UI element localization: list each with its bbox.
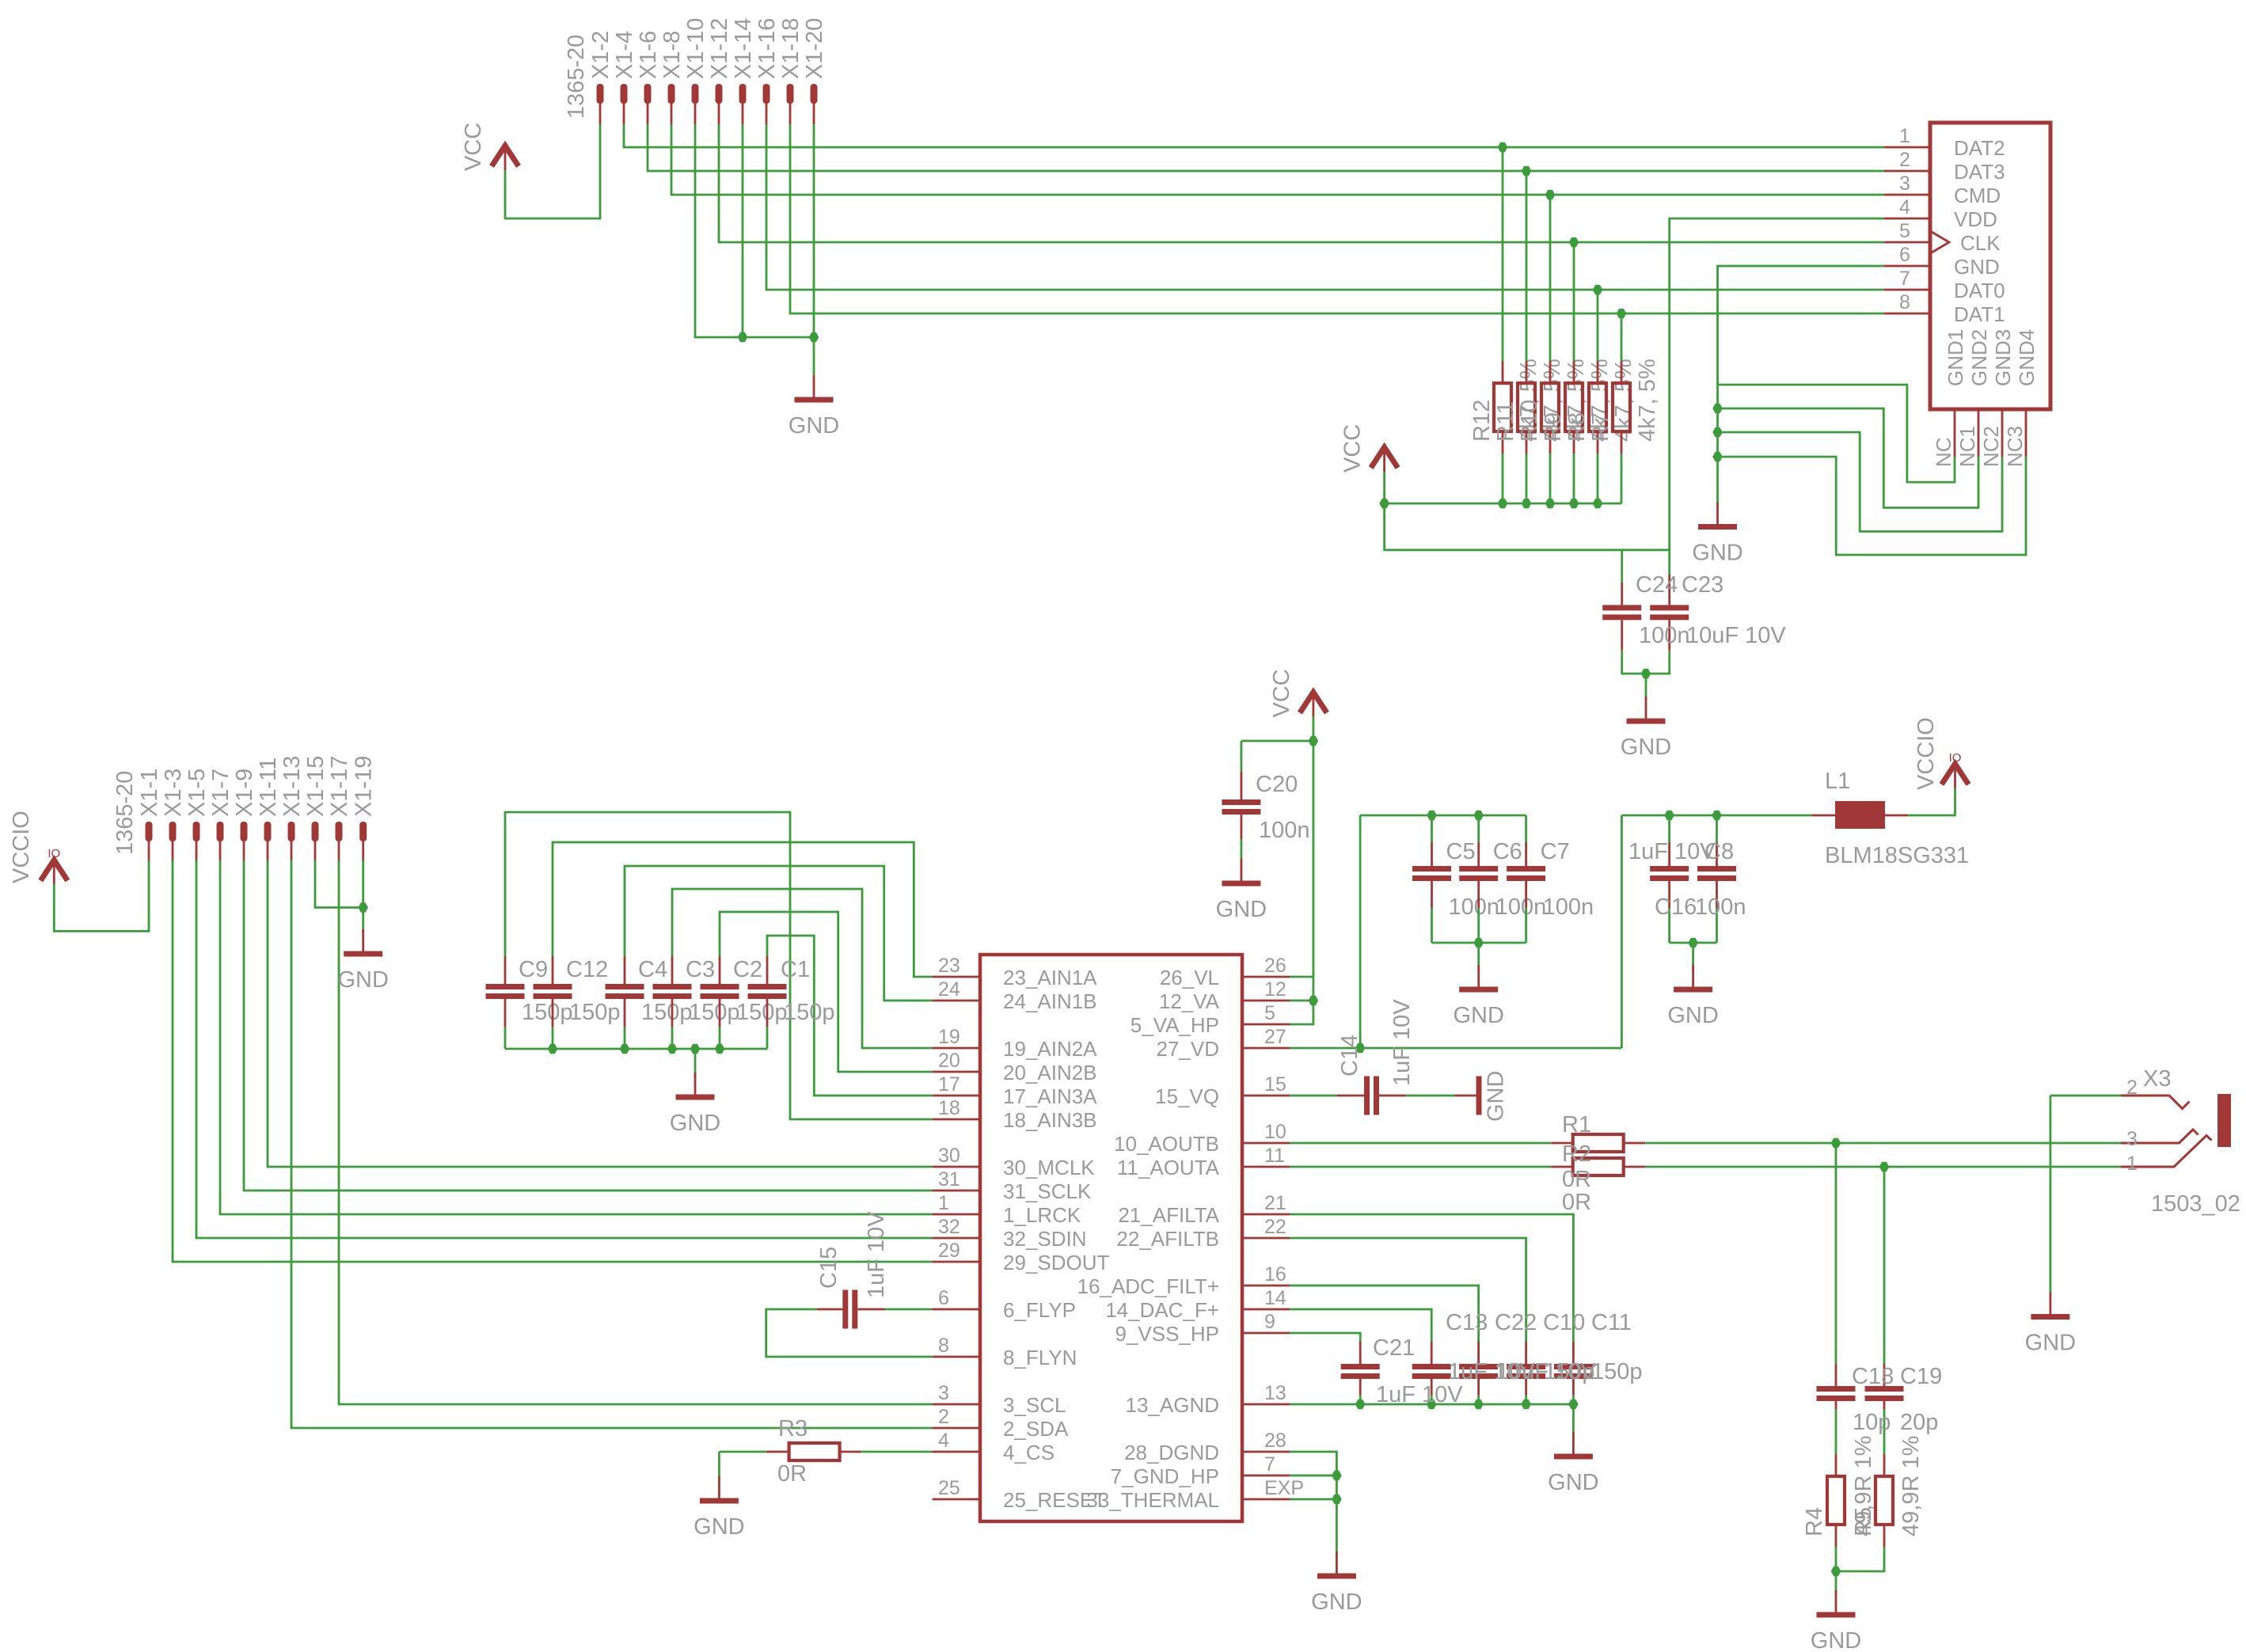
ground (AGND) (1572, 1432, 1575, 1454)
junction R12 on bus row (1498, 142, 1508, 153)
wire NC1 to GND rail (1718, 408, 1979, 507)
junction C19 branch (1879, 1162, 1890, 1172)
svg-text:DAT0: DAT0 (1954, 279, 2005, 302)
IC pin 13 stub (right) (1242, 1403, 1290, 1406)
svg-text:C3: C3 (686, 957, 715, 982)
connector pin X1-3 (169, 822, 177, 841)
wire C3 bottom (671, 1027, 674, 1049)
pin 4 VDD stub (1884, 218, 1930, 220)
svg-text:1: 1 (2126, 1153, 2138, 1175)
wire C4 bottom (624, 1027, 626, 1049)
svg-text:GND: GND (1484, 1071, 1509, 1122)
wire R10 top to bus row (1549, 195, 1552, 361)
svg-text:VDD: VDD (1954, 207, 1997, 231)
svg-text:GND: GND (1311, 1589, 1362, 1615)
svg-text:0R: 0R (777, 1461, 807, 1487)
svg-text:100n: 100n (1543, 894, 1594, 920)
wire to C20 top (1241, 740, 1313, 742)
svg-text:C24: C24 (1636, 572, 1678, 598)
svg-text:5: 5 (1264, 1002, 1275, 1024)
wire X1-11 to MCLK pin30 (268, 860, 933, 1168)
connector X3 pin 1 contact (2121, 1136, 2212, 1168)
svg-text:21: 21 (1264, 1192, 1286, 1214)
svg-text:150p: 150p (522, 1000, 573, 1025)
IC pin 22 stub (right) (1242, 1237, 1290, 1240)
svg-text:GND: GND (694, 1514, 744, 1540)
svg-text:R1: R1 (1562, 1112, 1591, 1137)
pin GND1 stub (1954, 409, 1956, 457)
pin GND3 stub (2001, 409, 2004, 457)
svg-text:2: 2 (1899, 149, 1910, 171)
capacitor C16 (1697, 866, 1736, 872)
pin lead C20 bottom (1241, 815, 1243, 839)
svg-text:X1-12: X1-12 (707, 18, 732, 79)
wire AGND pin13 rail (1290, 1403, 1573, 1406)
junction EXP (1332, 1494, 1342, 1505)
wire pin26 VL (1290, 976, 1313, 978)
svg-text:150p: 150p (1544, 1359, 1595, 1384)
svg-text:26_VL: 26_VL (1160, 966, 1219, 989)
wire DAC_F+ pin14 to C13 (1290, 1309, 1431, 1342)
connector X3 pin 3 contact (2121, 1130, 2198, 1143)
pin lead C4 top (624, 956, 626, 984)
wire VCCIO to X1-1 (54, 860, 149, 932)
junction VCC rail at R8 (1593, 499, 1603, 509)
svg-text:X1-5: X1-5 (184, 769, 210, 817)
svg-text:NC1: NC1 (1955, 426, 1979, 467)
IC pin 17 stub (left) (933, 1095, 980, 1097)
wire DGND pin28 chain to ground (1290, 1452, 1336, 1555)
wire C6 bottom (1477, 908, 1480, 943)
svg-text:X1-17: X1-17 (327, 756, 352, 817)
pin lead C3 top (671, 956, 674, 984)
pin lead C6 bottom (1477, 881, 1480, 908)
IC pin 8 stub (left) (933, 1356, 980, 1358)
wire C5 bottom (1431, 908, 1433, 943)
svg-text:NC: NC (1932, 437, 1955, 467)
wire net DAT1 (X1-18 to SD pin8) (790, 124, 1884, 313)
svg-text:12_VA: 12_VA (1159, 989, 1220, 1013)
resistor R3 (789, 1443, 840, 1460)
IC pin EXP stub (right) (1242, 1498, 1290, 1501)
junction C8 top (1664, 811, 1674, 821)
IC pin 9 stub (right) (1242, 1332, 1290, 1335)
svg-text:C8: C8 (1704, 839, 1734, 864)
svg-text:IO: IO (1949, 751, 1962, 765)
pin lead C15 right (857, 1308, 885, 1311)
svg-text:X1-1: X1-1 (137, 769, 162, 817)
resistor R7 (1613, 383, 1630, 431)
wire C9 bottom (504, 1027, 507, 1049)
wire AIN cap at x=698 to IC row 1234 (553, 842, 933, 977)
wire R8 bottom to VCC rail (1597, 454, 1599, 503)
pin lead C19 bottom (1883, 1401, 1886, 1409)
pin 2 DAT3 stub (1884, 170, 1930, 173)
svg-text:C9: C9 (519, 957, 548, 982)
junction VCC rail at R11 (1522, 499, 1532, 509)
svg-text:GND: GND (337, 967, 388, 993)
junction NC3 (1712, 452, 1723, 462)
svg-text:29_SDOUT: 29_SDOUT (1003, 1251, 1109, 1274)
wire AOUTA pin11 to R2 (1290, 1166, 1551, 1168)
pin 1 DAT2 stub (1884, 146, 1930, 149)
pin lead C10 bottom (1525, 1379, 1527, 1395)
wire AIN cap at x=849 to IC row 1324 (672, 889, 933, 1048)
svg-text:CMD: CMD (1954, 184, 2001, 207)
svg-text:28: 28 (1264, 1430, 1286, 1452)
wire to ground (1692, 943, 1694, 967)
capacitor C10 (1507, 1364, 1545, 1369)
junction AIN rail (548, 1044, 558, 1054)
junction NC2 (1712, 427, 1723, 438)
junction VCC rail at R10 (1545, 499, 1556, 509)
svg-text:1_LRCK: 1_LRCK (1003, 1203, 1081, 1227)
wire X3 pin2 to ground (2050, 1095, 2121, 1097)
svg-text:16: 16 (1264, 1263, 1286, 1286)
pin lead C19 top (1883, 1364, 1886, 1386)
ground (C20) (1241, 859, 1243, 881)
svg-text:X1-9: X1-9 (232, 769, 257, 817)
pin lead C2 bottom (719, 999, 721, 1027)
capacitor C6 (1459, 866, 1498, 872)
svg-text:100n: 100n (1695, 894, 1746, 920)
wire AIN cap at x=969 to IC row 1384 (767, 936, 933, 1096)
IC pin 11 stub (right) (1242, 1166, 1290, 1168)
pin stubs R8 (1597, 361, 1599, 383)
svg-text:2: 2 (938, 1406, 949, 1428)
svg-text:C18: C18 (1852, 1364, 1894, 1389)
pin lead C24 top (1621, 583, 1623, 605)
junction C10 on AGND (1521, 1399, 1531, 1410)
wire VCC to X1-2 (505, 124, 600, 218)
svg-text:C14: C14 (1337, 1035, 1362, 1077)
svg-text:X1-3: X1-3 (161, 769, 186, 817)
wire to ground (1477, 943, 1480, 967)
svg-text:C13: C13 (1446, 1310, 1488, 1335)
wire AIN cap at x=909 to IC row 1354 (720, 912, 933, 1072)
wire R12 bottom to VCC rail (1502, 454, 1504, 503)
inductor L1 body (1835, 801, 1885, 829)
svg-text:C2: C2 (733, 957, 762, 982)
ground (C14, rotated) (1455, 1095, 1477, 1097)
resistor R2 (1573, 1158, 1624, 1175)
wire R8 top to bus row (1597, 290, 1599, 361)
junction AIN rail (715, 1044, 725, 1054)
svg-text:C6: C6 (1493, 839, 1522, 864)
svg-text:3: 3 (938, 1382, 949, 1404)
pin lead R4 bottom (1835, 1525, 1837, 1547)
junction AIN rail (620, 1044, 630, 1054)
pin lead C18 bottom (1835, 1401, 1837, 1409)
wire AFILTB pin22 to C10 (1290, 1238, 1526, 1342)
connector pin X1-14 (739, 84, 747, 104)
pin lead C11 bottom (1572, 1379, 1575, 1395)
pin stubs R12 (1502, 361, 1504, 383)
svg-text:22_AFILTB: 22_AFILTB (1116, 1227, 1219, 1251)
wire AIN cap ground rail (505, 1048, 767, 1050)
pin lead C18 top (1835, 1364, 1837, 1386)
IC pin 14 stub (right) (1242, 1308, 1290, 1311)
svg-text:C5: C5 (1446, 839, 1476, 864)
wire C8/C16 ground rail (1670, 942, 1717, 944)
svg-text:C19: C19 (1900, 1364, 1942, 1389)
pin lead C11 top (1572, 1342, 1575, 1364)
junction VD at C5 rail (1355, 1043, 1366, 1054)
wire C24/C23 bottoms join (1622, 651, 1670, 674)
IC pin 20 stub (left) (933, 1071, 980, 1073)
wire R3 to ground (719, 1451, 766, 1453)
wire net DAT3 (X1-6 to SD pin2) (648, 124, 1884, 171)
pin 3 CMD stub (1884, 194, 1930, 196)
svg-text:16_ADC_FILT+: 16_ADC_FILT+ (1077, 1274, 1219, 1298)
wire R10 bottom to VCC rail (1549, 454, 1552, 503)
svg-text:15_VQ: 15_VQ (1155, 1084, 1219, 1108)
pin lead C13 top (1431, 1342, 1433, 1364)
connector pin X1-16 (763, 84, 770, 104)
pin stubs R11 (1526, 361, 1528, 383)
wire C7 bottom (1525, 908, 1527, 943)
IC pin 5 stub (right) (1242, 1023, 1290, 1026)
svg-text:GND: GND (1667, 1003, 1718, 1028)
pin lead C13 bottom (1431, 1379, 1433, 1395)
svg-text:100n: 100n (1639, 623, 1690, 648)
junction C21 on AGND (1355, 1399, 1366, 1410)
wire C5 top (1431, 815, 1433, 842)
connector pin X1-10 (692, 84, 699, 104)
svg-text:VCC: VCC (461, 123, 486, 171)
IC pin 10 stub (right) (1242, 1142, 1290, 1145)
ground (C5-C7) (1477, 965, 1480, 987)
svg-text:C16: C16 (1655, 894, 1697, 920)
svg-text:31: 31 (938, 1168, 960, 1191)
IC pin 2 stub (left) (933, 1427, 980, 1430)
wire R2 to X3 pin1 (1645, 1166, 2121, 1168)
svg-text:C22: C22 (1495, 1310, 1537, 1335)
IC pin 6 stub (left) (933, 1308, 980, 1311)
IC pin 28 stub (right) (1242, 1451, 1290, 1453)
pin lead C20 top (1241, 771, 1243, 799)
svg-text:1: 1 (1899, 125, 1910, 147)
wire ADC_FILT+ pin16 to C22 (1290, 1286, 1478, 1342)
capacitor C2 (701, 984, 739, 989)
svg-text:GND: GND (1216, 897, 1267, 922)
pin lead C3 bottom (671, 999, 674, 1027)
svg-text:X1-15: X1-15 (303, 756, 329, 817)
junction C22 on AGND (1473, 1399, 1484, 1410)
svg-text:GND: GND (1811, 1628, 1861, 1652)
wire AIN cap at x=638 to IC row 1414 (505, 812, 933, 1119)
IC pin 15 stub (right) (1242, 1095, 1290, 1097)
pin lead C5 bottom (1431, 881, 1433, 908)
capacitor C13 (1412, 1364, 1451, 1369)
svg-text:17: 17 (938, 1073, 960, 1096)
junction C6 top (1473, 811, 1484, 821)
ground (X3) (2049, 1293, 2051, 1315)
svg-text:150p: 150p (689, 1000, 740, 1025)
pin lead C12 top (552, 956, 554, 984)
pin 7 DAT0 stub (1884, 289, 1930, 291)
svg-text:C23: C23 (1682, 572, 1723, 598)
wire C13 bottom (1431, 1395, 1433, 1404)
pin lead C4 bottom (624, 999, 626, 1027)
connector pin X1-2 (597, 84, 604, 104)
junction R11 on bus row (1522, 166, 1532, 177)
supply VCC (1371, 447, 1398, 468)
svg-text:GND3: GND3 (1991, 329, 2015, 386)
junction VCC stem (1309, 736, 1319, 746)
svg-text:32: 32 (938, 1216, 960, 1238)
IC pin 27 stub (right) (1242, 1047, 1290, 1050)
pin lead R4 top (1835, 1454, 1837, 1476)
svg-text:4: 4 (1899, 196, 1910, 218)
connector pin X1-13 (288, 822, 295, 841)
wire net DAT2 (X1-4 to SD pin1) (624, 124, 1884, 147)
svg-text:1uF 10V: 1uF 10V (1389, 999, 1415, 1086)
junction AIN rail (667, 1044, 678, 1054)
wire R11 bottom to VCC rail (1526, 454, 1528, 503)
junction X1-20 GND (809, 332, 819, 343)
svg-text:C7: C7 (1541, 839, 1570, 864)
resistor R12 (1494, 383, 1511, 431)
svg-text:5_VA_HP: 5_VA_HP (1131, 1013, 1219, 1037)
svg-text:DAT2: DAT2 (1954, 136, 2005, 160)
svg-text:150p: 150p (736, 1000, 788, 1025)
ground (X1 top) (813, 375, 815, 397)
svg-text:7: 7 (1899, 268, 1910, 290)
svg-text:R8: R8 (1564, 412, 1590, 442)
svg-text:0R: 0R (1562, 1190, 1591, 1215)
svg-text:15: 15 (1264, 1073, 1286, 1096)
svg-text:1365-20: 1365-20 (564, 35, 589, 119)
ground (C24/C23) (1645, 697, 1647, 719)
pin stubs R9 (1573, 361, 1575, 383)
svg-text:13_AGND: 13_AGND (1126, 1393, 1220, 1417)
svg-text:24: 24 (938, 978, 960, 1001)
svg-text:12: 12 (1264, 978, 1286, 1001)
pin lead C15 left (817, 1308, 843, 1311)
junction R10 on bus row (1545, 190, 1556, 200)
wire branch to C19 (1883, 1167, 1886, 1364)
connector pin X1-20 (811, 84, 818, 104)
svg-text:10p: 10p (1853, 1410, 1891, 1435)
IC pin 7 stub (right) (1242, 1475, 1290, 1477)
wire C22 bottom (1477, 1395, 1480, 1404)
connector pin X1-18 (787, 84, 794, 104)
junction R7 on bus row (1617, 309, 1627, 319)
svg-text:GND: GND (1548, 1470, 1598, 1495)
wire branch to C18 (1835, 1143, 1837, 1364)
svg-text:R5: R5 (1851, 1507, 1876, 1536)
svg-text:4k7, 5%: 4k7, 5% (1635, 359, 1660, 442)
connector pin X1-7 (217, 822, 224, 841)
pin lead C9 top (504, 956, 507, 984)
junction R9 on bus row (1569, 237, 1579, 248)
connector pin X1-1 (146, 822, 153, 841)
svg-text:7_GND_HP: 7_GND_HP (1111, 1464, 1219, 1488)
connector pin X1-17 (336, 822, 343, 841)
svg-text:X1-7: X1-7 (208, 769, 234, 817)
pin lead C2 top (719, 956, 721, 984)
wire X1-19 to GND (362, 860, 364, 932)
wire C5 rail riser (1359, 815, 1362, 1048)
junction C16 top (1712, 811, 1722, 821)
wire VD rail over C5-C7 (1360, 815, 1526, 817)
svg-text:C1: C1 (781, 957, 810, 982)
wire C19 to R5 (1883, 1409, 1886, 1454)
wire GND_HP pin7 (1290, 1475, 1336, 1477)
svg-text:13: 13 (1264, 1382, 1286, 1404)
wire C8 top (1668, 815, 1670, 842)
capacitor C20 (1222, 799, 1260, 805)
ground (AIN caps) (694, 1073, 697, 1095)
connector pin X1-8 (668, 84, 675, 104)
junction C8/C16 ground stem (1688, 938, 1698, 948)
wire NC2 to GND rail (1718, 432, 2003, 531)
wire net GND (SD pin6) (1718, 266, 1884, 504)
IC pin 30 stub (left) (933, 1166, 980, 1168)
svg-text:R9: R9 (1541, 412, 1566, 442)
svg-text:4_CS: 4_CS (1003, 1441, 1055, 1464)
connector pin X1-11 (264, 822, 272, 841)
capacitor C21 (1341, 1364, 1380, 1369)
svg-text:X1-6: X1-6 (636, 31, 661, 79)
wire R1 to X3 pin3 (1645, 1142, 2121, 1145)
svg-text:3: 3 (1899, 173, 1910, 195)
pin 5 CLK stub (1884, 241, 1930, 244)
junction C5 top (1427, 811, 1437, 821)
pin lead C16 bottom (1716, 881, 1718, 908)
wire C8 bottom (1668, 908, 1670, 943)
wire C16 bottom (1716, 908, 1718, 943)
svg-text:R11: R11 (1493, 401, 1518, 442)
pin lead C9 bottom (504, 999, 507, 1027)
svg-text:0R: 0R (1562, 1167, 1591, 1192)
ground (X1 left) (362, 929, 364, 951)
wire C12 bottom (552, 1027, 554, 1049)
wire VCC to C24/C23 tops (1385, 503, 1670, 550)
junction NC1 (1712, 404, 1723, 414)
pin lead C14 left (1336, 1095, 1364, 1097)
wire NC3 to GND rail (1718, 457, 2027, 555)
svg-text:GND4: GND4 (2015, 329, 2039, 386)
pin lead C1 top (766, 956, 769, 984)
wire C7 top (1525, 815, 1527, 842)
wire R9 top to bus row (1573, 242, 1575, 361)
svg-text:GND2: GND2 (1967, 329, 1991, 386)
wire net CLK (X1-12 to SD pin5) (719, 124, 1884, 242)
connector pin X1-19 (359, 822, 367, 841)
connector pin X1-9 (241, 822, 248, 841)
svg-text:X3: X3 (2143, 1066, 2171, 1092)
svg-text:2: 2 (2126, 1077, 2138, 1099)
junction VA (1309, 996, 1319, 1006)
wire GND chain X1-10/X1-14/X1-20 (695, 124, 814, 337)
svg-text:20: 20 (938, 1050, 960, 1072)
wire X1-3 to SDOUT pin29 (173, 860, 933, 1263)
wire R7 top to bus row (1621, 313, 1623, 361)
IC pin 12 stub (right) (1242, 1000, 1290, 1002)
wire C2 bottom (719, 1027, 721, 1049)
wire R11 top to bus row (1526, 171, 1528, 361)
svg-text:3: 3 (2126, 1128, 2138, 1150)
svg-text:27_VD: 27_VD (1157, 1037, 1220, 1061)
svg-text:25: 25 (938, 1477, 960, 1499)
wire X1-7 to LRCK pin1 (220, 860, 933, 1215)
svg-text:32_SDIN: 32_SDIN (1003, 1227, 1087, 1251)
svg-text:X1-14: X1-14 (731, 18, 756, 79)
svg-text:R2: R2 (1562, 1141, 1591, 1167)
pin lead R5 top (1883, 1454, 1886, 1476)
